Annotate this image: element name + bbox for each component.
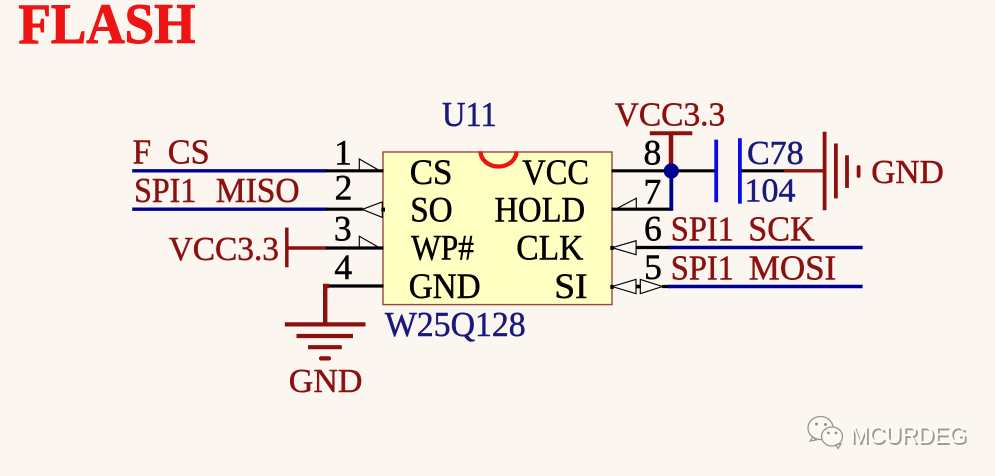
wire cap to ground (maroon) <box>784 169 824 172</box>
pin 1 wire <box>326 169 384 172</box>
wire net F_CS (blue) <box>132 169 327 172</box>
pin 2 output arrow <box>362 202 382 218</box>
pin 4 wire <box>328 284 384 287</box>
svg-text:4: 4 <box>334 247 352 287</box>
svg-text:CS: CS <box>410 153 453 192</box>
pin name HOLD (pin 7) <box>495 191 586 230</box>
svg-text:WP#: WP# <box>411 229 474 268</box>
svg-text:C78: C78 <box>747 135 804 172</box>
pin 8 wire <box>612 169 717 172</box>
chip notch arc <box>481 151 517 166</box>
wire net SPI1_SCK (blue) <box>668 246 863 249</box>
svg-text:MISO: MISO <box>216 171 300 210</box>
svg-text:GND: GND <box>871 154 944 191</box>
svg-text:7: 7 <box>644 172 662 212</box>
pin 7 wire <box>612 208 672 211</box>
svg-text:U11: U11 <box>442 96 497 134</box>
pin name CLK (pin 6) <box>516 229 583 268</box>
watermark icon (chat bubbles) <box>808 417 843 449</box>
net label F_CS : CS <box>168 133 210 171</box>
pin name SO (pin 2) <box>410 191 452 230</box>
svg-text:8: 8 <box>644 132 662 172</box>
svg-text:SI: SI <box>554 266 587 306</box>
svg-text:CS: CS <box>168 133 210 171</box>
power symbol VCC3.3 (left) <box>285 228 289 268</box>
pin name CS (pin 1) <box>410 153 453 192</box>
pin 7 input arrow <box>617 198 637 209</box>
net label SPI1_MOSI : MOSI <box>749 249 837 288</box>
svg-text:SCK: SCK <box>748 210 814 248</box>
wire to ground (maroon elbow) <box>325 286 329 324</box>
svg-text:VCC3.3: VCC3.3 <box>615 97 725 134</box>
pin name GND (pin 4) <box>409 267 481 306</box>
pin 3 wire <box>326 246 384 249</box>
pin 2 wire <box>326 208 363 211</box>
net label F_CS : F <box>133 134 151 172</box>
wire junction to pin 7 (blue) <box>669 171 673 211</box>
svg-text:VCC3.3: VCC3.3 <box>169 231 279 268</box>
pin 5 wire <box>610 285 614 289</box>
svg-text:MOSI: MOSI <box>749 249 837 288</box>
svg-text:GND: GND <box>289 363 363 400</box>
pin name VCC (pin 8) <box>522 154 589 193</box>
svg-text:6: 6 <box>644 208 662 248</box>
svg-text:3: 3 <box>334 209 352 249</box>
junction node <box>664 163 679 178</box>
net label SPI1_SCK : SPI1 <box>671 211 734 249</box>
pin 6 wire <box>636 246 670 249</box>
svg-text:FLASH: FLASH <box>19 0 196 55</box>
svg-text:SPI1: SPI1 <box>671 250 734 288</box>
net label SPI1_MISO : MISO <box>216 171 300 210</box>
pin 1 input arrow <box>359 159 379 171</box>
capacitor C78 plate 2 <box>738 138 742 203</box>
pin 5 bidirectional arrow <box>612 279 662 293</box>
pin 3 input arrow <box>359 236 379 248</box>
svg-text:CLK: CLK <box>516 229 583 268</box>
net label SPI1_MOSI : SPI1 <box>671 250 734 288</box>
svg-text:SO: SO <box>410 191 452 230</box>
capacitor C78 plate 1 <box>714 140 718 203</box>
svg-text:SPI1: SPI1 <box>671 211 734 249</box>
ground symbol (right, rotated) <box>825 132 859 210</box>
svg-text:F: F <box>133 134 151 172</box>
svg-text:2: 2 <box>335 168 353 208</box>
chip U11 body (W25Q128) <box>383 152 612 305</box>
pin name WP# (pin 3) <box>411 229 474 268</box>
title FLASH <box>19 0 196 55</box>
net label SPI1_SCK : SCK <box>748 210 814 248</box>
svg-text:1: 1 <box>334 133 352 173</box>
ground symbol (bottom) <box>285 324 366 358</box>
svg-text:HOLD: HOLD <box>495 191 586 230</box>
wire cap to ground (black) <box>742 169 786 172</box>
svg-text:104: 104 <box>745 173 796 210</box>
svg-text:MCURDEG: MCURDEG <box>850 421 966 448</box>
pin 6 input arrow <box>612 241 636 255</box>
wire net SPI1_MISO (blue) <box>132 207 327 210</box>
designator U11 <box>442 96 497 134</box>
power symbol VCC3.3 (right) <box>650 131 693 135</box>
svg-text:VCC: VCC <box>522 154 589 193</box>
svg-text:W25Q128: W25Q128 <box>385 305 526 344</box>
watermark text MCURDEG <box>852 423 968 450</box>
wire net SPI1_MOSI (blue) <box>668 285 863 288</box>
svg-text:SPI1: SPI1 <box>134 172 196 211</box>
svg-text:GND: GND <box>409 267 481 306</box>
net label SPI1_MISO : SPI1 <box>134 172 196 211</box>
pin name SI (pin 5) <box>554 266 587 306</box>
part value W25Q128 <box>385 305 526 344</box>
